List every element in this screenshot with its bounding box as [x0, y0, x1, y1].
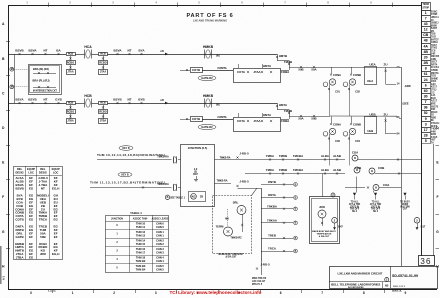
svg-text:ASSOC LEADS: ASSOC LEADS — [152, 217, 169, 220]
svg-text:EG: EG — [29, 218, 34, 222]
svg-text:CHN 0: CHN 0 — [156, 221, 164, 225]
svg-text:M: M — [11, 87, 13, 89]
svg-text:TMKB-RA: TMKB-RA — [157, 155, 169, 158]
svg-text:CHN 2: CHN 2 — [156, 238, 164, 242]
svg-text:RCB: RCB — [100, 53, 106, 56]
svg-text:INCORPORATED: INCORPORATED — [348, 286, 364, 289]
svg-text:EG: EG — [29, 256, 34, 260]
svg-text:CKT: CKT — [403, 209, 408, 211]
svg-text:COMTA: COMTA — [217, 115, 226, 119]
svg-text:TMCBA: TMCBA — [293, 168, 303, 172]
svg-text:1: 1 — [72, 291, 74, 295]
svg-text:JRO: JRO — [319, 205, 326, 209]
svg-text:CONA: CONA — [333, 73, 341, 77]
svg-text:J-B: J-B — [160, 51, 164, 53]
svg-text:TMKB-RA: TMKB-RA — [157, 183, 169, 186]
svg-text:TMCBA: TMCBA — [293, 154, 303, 158]
svg-text:TERM: TERM — [216, 224, 224, 228]
svg-text:TMKA: TMKA — [266, 154, 274, 158]
svg-text:(W): (W) — [216, 56, 220, 58]
svg-text:TABLE 1: TABLE 1 — [130, 211, 142, 215]
svg-text:THM 13: THM 13 — [136, 234, 146, 238]
svg-text:CHN 5: CHN 5 — [156, 264, 164, 268]
svg-text:(SEE: (SEE — [403, 102, 409, 106]
svg-text:THM B4: THM B4 — [136, 268, 146, 272]
svg-text:ALBA: ALBA — [321, 154, 329, 158]
svg-text:M INTERSECTION CKT: M INTERSECTION CKT — [33, 91, 58, 93]
svg-text:G: G — [436, 230, 439, 234]
svg-text:BELL TELEPHONE LABORATORIES: BELL TELEPHONE LABORATORIES — [331, 282, 380, 286]
svg-text:CHN 0: CHN 0 — [156, 225, 164, 229]
svg-text:GYB: GYB — [55, 98, 62, 102]
svg-text:ALSB: ALSB — [333, 168, 341, 172]
svg-text:BSYB: BSYB — [113, 98, 122, 102]
svg-text:NT: NT — [44, 49, 48, 53]
svg-text:TCI Library: www.telephonecoll: TCI Library: www.telephonecollectors.inf… — [170, 290, 262, 295]
svg-text:EG: EG — [29, 187, 34, 191]
svg-text:B47: B47 — [338, 225, 343, 229]
svg-text:JTAA: JTAA — [100, 71, 106, 74]
svg-text:ALSB: ALSB — [333, 154, 341, 158]
svg-text:DNTB: DNTB — [268, 180, 276, 184]
svg-text:TMKA: TMKA — [266, 168, 274, 172]
svg-text:ZB: ZB — [200, 196, 204, 199]
svg-text:LOC 012-117: LOC 012-117 — [252, 281, 266, 283]
svg-text:LXE AND TRUNK MARKING: LXE AND TRUNK MARKING — [193, 19, 227, 23]
svg-text:RCB: RCB — [68, 53, 74, 56]
svg-text:B: B — [167, 196, 169, 199]
svg-text:STRIP: STRIP — [422, 8, 429, 10]
svg-text:NT: NT — [41, 187, 45, 191]
svg-text:CHN 1: CHN 1 — [156, 234, 164, 238]
svg-text:BSVB: BSVB — [15, 49, 24, 53]
svg-text:TERM: TERM — [423, 4, 429, 6]
svg-text:8: 8 — [363, 291, 365, 295]
svg-text:GATB-RZ: GATB-RZ — [201, 125, 213, 129]
svg-text:COTA: COTA — [237, 119, 245, 123]
svg-text:CHN 4: CHN 4 — [156, 255, 164, 259]
svg-text:50B: 50B — [311, 117, 316, 121]
svg-text:6: 6 — [280, 291, 282, 295]
svg-text:REL: REL — [17, 167, 23, 171]
svg-text:RCB: RCB — [68, 102, 74, 105]
svg-text:BYB: BYB — [138, 98, 145, 102]
svg-text:JTAA: JTAA — [253, 119, 260, 123]
svg-text:CHN 3: CHN 3 — [156, 251, 164, 255]
svg-text:(W): (W) — [216, 105, 220, 107]
svg-text:C03: C03 — [335, 139, 340, 143]
svg-text:COTB: COTB — [192, 68, 200, 72]
svg-text:SD-65741-01-99: SD-65741-01-99 — [392, 274, 418, 278]
svg-text:4B: 4B — [423, 50, 428, 54]
svg-text:CONB: CONB — [353, 73, 361, 77]
svg-text:17: 17 — [424, 128, 428, 132]
svg-text:COTB: COTB — [15, 218, 24, 222]
svg-text:THM 15: THM 15 — [136, 242, 146, 246]
svg-text:CONB: CONB — [353, 123, 361, 127]
svg-text:DNTA: DNTA — [268, 193, 276, 197]
svg-text:NT: NT — [44, 98, 48, 102]
svg-text:1: 1 — [425, 11, 427, 15]
svg-text:J-RO-5: J-RO-5 — [239, 152, 249, 156]
svg-text:2: 2 — [113, 291, 115, 295]
svg-text:C02: C02 — [355, 90, 360, 94]
svg-text:9: 9 — [425, 117, 427, 121]
svg-text:BSVA: BSVA — [28, 49, 37, 53]
svg-text:8: 8 — [425, 67, 427, 71]
svg-text:9: 9 — [405, 291, 407, 295]
svg-text:HCB: HCB — [84, 94, 92, 98]
svg-text:65: 65 — [385, 283, 389, 287]
svg-text:COA: COA — [352, 151, 358, 155]
svg-text:36: 36 — [424, 106, 428, 110]
svg-text:THM 17: THM 17 — [136, 251, 146, 255]
svg-text:LXE,LXM AND MARKER CIRCUIT: LXE,LXM AND MARKER CIRCUIT — [337, 272, 382, 276]
svg-text:CHN 5: CHN 5 — [156, 268, 164, 272]
svg-text:RCB: RCB — [100, 102, 106, 105]
svg-text:F: F — [436, 195, 438, 199]
svg-text:COTB: COTB — [192, 117, 200, 121]
svg-text:TMKB-RA: TMKB-RA — [220, 156, 231, 159]
svg-text:4A: 4A — [423, 44, 428, 48]
svg-text:J-0: J-0 — [194, 168, 198, 171]
svg-text:MB: MB — [225, 219, 229, 221]
svg-text:BSVA: BSVA — [113, 49, 122, 53]
svg-text:36: 36 — [420, 257, 431, 266]
svg-text:RCBO: RCBO — [67, 110, 74, 113]
svg-text:MAKE BUSY AND BUSY: MAKE BUSY AND BUSY — [218, 253, 244, 256]
svg-text:REL: REL — [40, 167, 46, 171]
svg-text:BSVB: BSVB — [15, 187, 24, 191]
svg-text:HMKB: HMKB — [203, 94, 214, 98]
svg-text:THM 18: THM 18 — [136, 255, 146, 259]
svg-text:JTAA: JTAA — [67, 71, 73, 74]
svg-text:JTBA: JTBA — [16, 256, 25, 260]
svg-text:60: 60 — [424, 89, 428, 93]
svg-text:EQUIP: EQUIP — [52, 167, 60, 171]
svg-text:& DIA CKT: & DIA CKT — [319, 235, 330, 238]
svg-text:BAT: BAT — [193, 173, 198, 176]
svg-text:BSYA: BSYA — [15, 98, 24, 102]
svg-text:BYA: BYA — [138, 49, 145, 53]
svg-text:3: 3 — [155, 291, 157, 295]
svg-text:BRA (PL) (RJ): BRA (PL) (RJ) — [32, 79, 49, 83]
svg-text:COB: COB — [378, 166, 384, 170]
svg-text:50A: 50A — [311, 68, 316, 72]
svg-text:COA: COA — [383, 183, 389, 187]
svg-text:EG,H: EG,H — [52, 187, 59, 191]
svg-text:JTBA: JTBA — [67, 120, 74, 123]
svg-text:NT: NT — [128, 49, 132, 53]
svg-text:HMTA: HMTA — [263, 64, 271, 68]
svg-text:TREB: TREB — [268, 234, 276, 238]
svg-text:NT: NT — [128, 98, 132, 102]
svg-text:61: 61 — [424, 72, 428, 76]
svg-text:THM 10,12,14,16,18,B3(ORIGINAT: THM 10,12,14,16,18,B3(ORIGINATING) — [97, 153, 165, 157]
svg-text:CHN 4: CHN 4 — [156, 259, 164, 263]
svg-text:JUNCTION (0-5): JUNCTION (0-5) — [188, 146, 208, 150]
svg-text:& DIA CKT: & DIA CKT — [225, 256, 237, 259]
svg-text:SH 2: SH 2 — [373, 211, 379, 213]
svg-text:JUNCTION: JUNCTION — [111, 218, 123, 220]
svg-text:ZU: ZU — [384, 112, 388, 116]
svg-text:HMTA: HMTA — [279, 103, 287, 107]
svg-text:0: 0 — [30, 291, 32, 295]
svg-text:DEA: DEA — [367, 79, 373, 83]
svg-text:KEY B: KEY B — [121, 174, 128, 176]
svg-text:EG,H: EG,H — [52, 252, 59, 256]
svg-text:UEA: UEA — [369, 63, 376, 67]
svg-text:THM 11,13,15,17,B2,B4(TERMINAT: THM 11,13,15,17,B2,B4(TERMINATING) — [90, 180, 165, 184]
svg-text:KEY B: KEY B — [122, 148, 129, 150]
svg-text:GATB: GATB — [15, 235, 24, 239]
svg-text:THM 12: THM 12 — [136, 230, 146, 234]
svg-text:24: 24 — [424, 78, 428, 82]
svg-text:CHN 2: CHN 2 — [156, 242, 164, 246]
svg-text:30: 30 — [424, 94, 428, 98]
svg-text:LOC: LOC — [28, 171, 34, 175]
svg-text:MISC TRK FR: MISC TRK FR — [252, 278, 267, 280]
svg-text:G: G — [2, 230, 5, 234]
svg-text:ASSOC THM -: ASSOC THM - — [133, 217, 149, 220]
svg-text:DESIG: DESIG — [16, 171, 24, 175]
svg-text:CHN 3: CHN 3 — [156, 247, 164, 251]
svg-text:LOC: LOC — [53, 171, 59, 175]
svg-text:EQUIP: EQUIP — [27, 167, 35, 171]
svg-text:JTAA: JTAA — [253, 70, 260, 74]
svg-text:5: 5 — [425, 139, 427, 143]
svg-text:EF: EF — [29, 235, 33, 239]
svg-text:C01: C01 — [335, 90, 340, 94]
svg-text:RCBO: RCBO — [99, 110, 106, 113]
svg-text:3: 3 — [425, 122, 427, 126]
svg-text:ALBA: ALBA — [321, 168, 329, 172]
svg-text:48: 48 — [424, 39, 428, 43]
svg-text:DWG 2 OF 2: DWG 2 OF 2 — [393, 286, 406, 288]
svg-text:DESIG: DESIG — [39, 171, 47, 175]
svg-text:20: 20 — [424, 55, 428, 59]
svg-text:HCA: HCA — [84, 45, 92, 49]
svg-text:2B: 2B — [423, 61, 428, 65]
svg-text:EF: EF — [54, 235, 58, 239]
svg-text:52: 52 — [424, 111, 428, 115]
svg-text:C04: C04 — [355, 139, 360, 143]
svg-text:COMTA: COMTA — [217, 66, 226, 70]
svg-text:THM B2: THM B2 — [136, 259, 146, 263]
svg-text:PART OF FS 6: PART OF FS 6 — [186, 13, 233, 19]
svg-text:GATB-RZ: GATB-RZ — [201, 76, 213, 80]
svg-text:TMKB-RA: TMKB-RA — [217, 179, 228, 182]
svg-text:HMTA: HMTA — [263, 113, 271, 117]
svg-text:THM B3: THM B3 — [136, 264, 146, 268]
svg-text:JRO: JRO — [40, 252, 47, 256]
svg-text:BSYB: BSYB — [28, 98, 37, 102]
svg-text:TRKAA: TRKAA — [267, 218, 277, 222]
svg-text:TMKB: TMKB — [279, 154, 287, 158]
svg-text:RCBO: RCBO — [99, 61, 106, 64]
svg-text:TMAB: TMAB — [284, 60, 292, 64]
svg-text:THM 14: THM 14 — [136, 238, 146, 242]
svg-text:KO: KO — [192, 195, 196, 198]
svg-text:RCBO: RCBO — [67, 61, 74, 64]
svg-text:CONA: CONA — [333, 123, 341, 127]
svg-text:7: 7 — [425, 16, 427, 20]
svg-text:43: 43 — [424, 22, 428, 26]
svg-text:6: 6 — [425, 83, 427, 87]
svg-text:J-B: J-B — [160, 100, 164, 102]
svg-text:HMKB: HMKB — [203, 45, 214, 49]
svg-text:UEB: UEB — [369, 112, 376, 116]
svg-text:ZU: ZU — [384, 63, 388, 67]
svg-text:7: 7 — [321, 291, 323, 295]
svg-text:DRL: DRL — [233, 200, 239, 204]
svg-text:CB: CB — [423, 33, 429, 37]
svg-text:J-RO-5: J-RO-5 — [239, 180, 249, 184]
svg-text:EG: EG — [54, 218, 59, 222]
svg-text:5-13-55: 5-13-55 — [48, 291, 56, 293]
svg-text:THM 10: THM 10 — [136, 221, 146, 225]
svg-text:THM 16: THM 16 — [136, 247, 146, 251]
svg-text:28: 28 — [424, 134, 428, 138]
svg-text:TMKB: TMKB — [279, 168, 287, 172]
svg-text:CHN 1: CHN 1 — [156, 230, 164, 234]
svg-text:F: F — [2, 195, 4, 199]
svg-text:BRA (M) (RJ): BRA (M) (RJ) — [33, 67, 49, 71]
svg-text:SEE TABLE 1: SEE TABLE 1 — [170, 196, 186, 199]
svg-text:ISSUE 3L: ISSUE 3L — [392, 291, 402, 293]
svg-text:50A: 50A — [298, 117, 303, 121]
svg-text:TMAB: TMAB — [284, 109, 292, 113]
svg-text:TRCA: TRCA — [268, 247, 276, 251]
svg-text:MTG PL 5: MTG PL 5 — [252, 284, 263, 286]
svg-text:UEB: UEB — [367, 129, 373, 133]
svg-text:THM 11: THM 11 — [136, 225, 146, 229]
svg-text:JTBA: JTBA — [100, 120, 107, 123]
svg-text:COTA: COTA — [237, 70, 245, 74]
svg-text:TRCA: TRCA — [39, 218, 48, 222]
svg-text:M: M — [11, 69, 13, 71]
svg-text:TMKB-RZ: TMKB-RZ — [230, 237, 242, 240]
svg-text:50B: 50B — [298, 68, 303, 72]
svg-text:TRKBA: TRKBA — [267, 204, 277, 208]
svg-text:50B: 50B — [40, 235, 46, 239]
svg-text:J-RO-5: J-RO-5 — [260, 263, 270, 267]
svg-text:12: 12 — [424, 28, 428, 32]
svg-text:HMTB: HMTB — [279, 54, 287, 58]
svg-text:SH 2: SH 2 — [352, 211, 358, 213]
svg-text:-GRD: -GRD — [404, 84, 411, 88]
